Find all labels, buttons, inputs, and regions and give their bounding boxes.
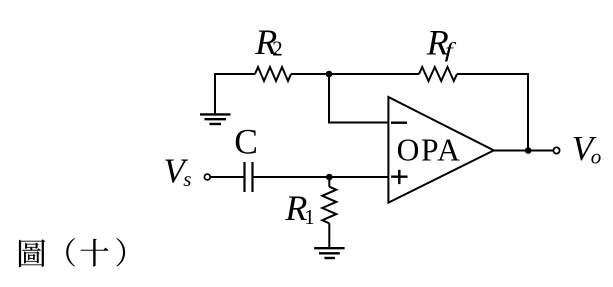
svg-text:s: s xyxy=(183,167,191,191)
svg-text:1: 1 xyxy=(304,205,315,229)
svg-text:2: 2 xyxy=(272,37,283,61)
svg-text:C: C xyxy=(234,122,258,162)
svg-text:OPA: OPA xyxy=(397,132,462,167)
svg-text:f: f xyxy=(445,38,458,62)
svg-text:o: o xyxy=(591,144,602,168)
